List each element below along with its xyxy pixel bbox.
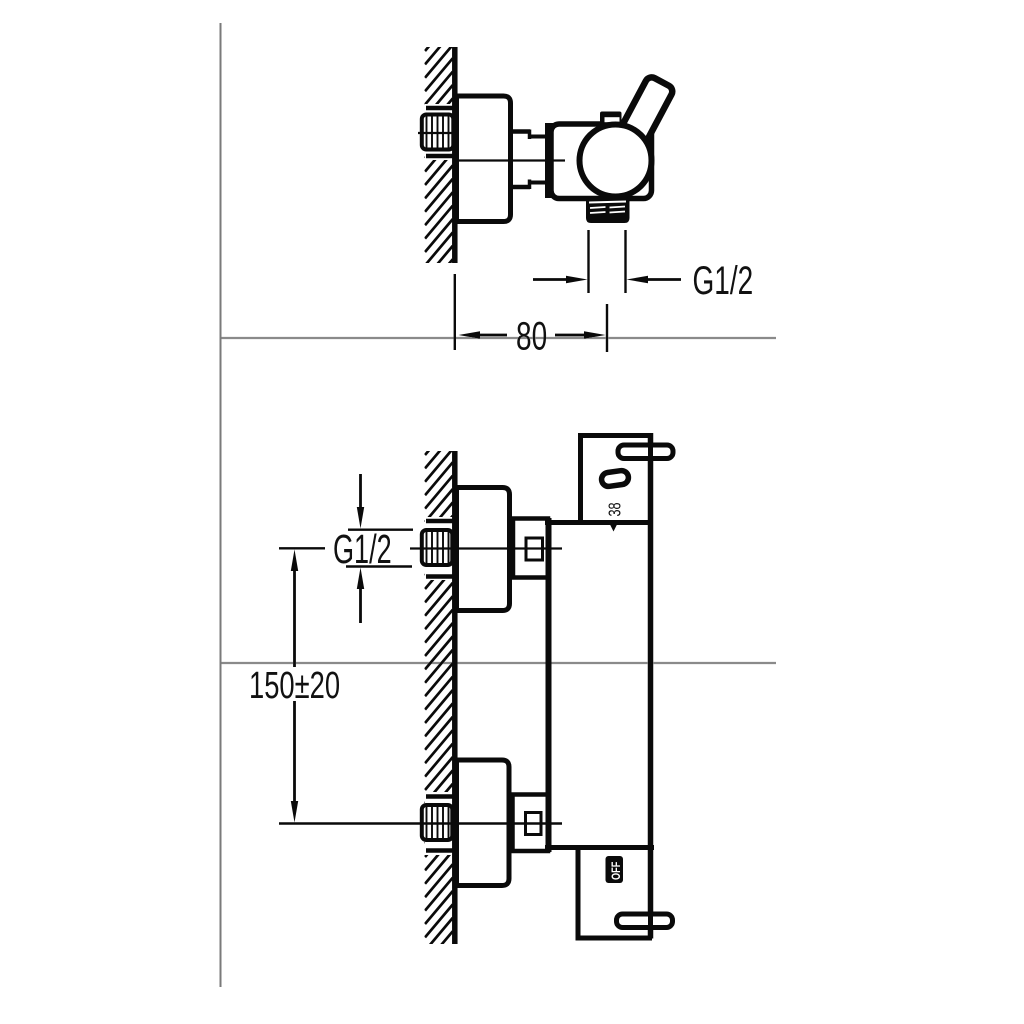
upper centerline — [410, 547, 562, 549]
frame vertical line — [220, 23, 222, 987]
small dim arrow up — [357, 568, 364, 624]
inlet nipple flange top view — [425, 104, 453, 160]
lower nipple flange — [425, 792, 453, 855]
lower connector socket square — [526, 813, 542, 835]
svg-text:80: 80 — [516, 315, 547, 359]
lower centerline — [279, 822, 562, 824]
small dim arrow down — [357, 474, 364, 529]
body bottom line — [545, 845, 654, 850]
valve cap circle — [580, 125, 652, 197]
main axis centerline top view — [457, 159, 565, 161]
upper slider pin — [618, 444, 673, 460]
escutcheon top view — [457, 96, 511, 222]
dim 150 lower segment — [291, 701, 298, 823]
nipple centerline top view — [418, 132, 467, 134]
separator line lower — [220, 662, 776, 664]
connecting pipe segment B — [529, 137, 546, 183]
body top line — [545, 520, 652, 525]
extension line wall — [454, 274, 456, 350]
dimension 80 left arrow — [459, 331, 508, 338]
dimension G1/2 top right arrow — [627, 276, 682, 283]
body right edge — [648, 433, 654, 939]
extension line outlet axis — [606, 304, 608, 352]
valve body top view — [551, 124, 652, 199]
extension line outlet left — [587, 230, 589, 293]
upper bracket top edge — [578, 433, 652, 438]
oval hole — [601, 470, 630, 488]
main axis inside body — [551, 159, 565, 161]
lower connector — [513, 795, 549, 852]
svg-text:38: 38 — [605, 502, 625, 516]
upper connector socket square — [526, 538, 543, 560]
dim 150 top tick — [279, 547, 325, 549]
connecting pipe segment A — [511, 132, 530, 188]
lower slider pin — [617, 913, 673, 929]
small arrow mark 38 — [610, 524, 618, 532]
dim 150 upper segment — [291, 550, 298, 668]
upper escutcheon — [457, 488, 510, 611]
handle lever — [613, 75, 674, 156]
dimension G1/2 top left arrow — [533, 276, 588, 283]
extension line nipple bottom — [346, 565, 412, 567]
body left bar — [546, 518, 552, 852]
upper nipple flange — [425, 517, 453, 580]
svg-text:G1/2: G1/2 — [333, 528, 392, 573]
extension line nipple top — [348, 529, 413, 531]
lower bracket bottom edge — [576, 936, 653, 941]
cartridge tab — [600, 112, 622, 127]
svg-text:G1/2: G1/2 — [693, 259, 754, 303]
threaded nipple top view — [422, 115, 454, 150]
dimension 80 right arrow — [555, 331, 606, 338]
union step — [528, 130, 532, 190]
svg-text:OFF: OFF — [611, 862, 623, 880]
separator line upper — [220, 337, 776, 339]
svg-text:150±20: 150±20 — [249, 665, 340, 707]
lower escutcheon — [457, 760, 510, 886]
lower bracket left edge — [576, 850, 581, 941]
OFF badge — [606, 856, 624, 883]
upper connector — [513, 519, 548, 578]
upper bracket left edge — [578, 433, 583, 522]
wall line bottom view — [452, 451, 458, 944]
upper threaded nipple — [422, 530, 453, 565]
wall line top view — [452, 47, 458, 263]
body flange bar — [545, 123, 557, 198]
outlet thread top view — [586, 198, 630, 223]
extension line outlet right — [624, 230, 626, 293]
lower threaded nipple — [422, 805, 453, 840]
